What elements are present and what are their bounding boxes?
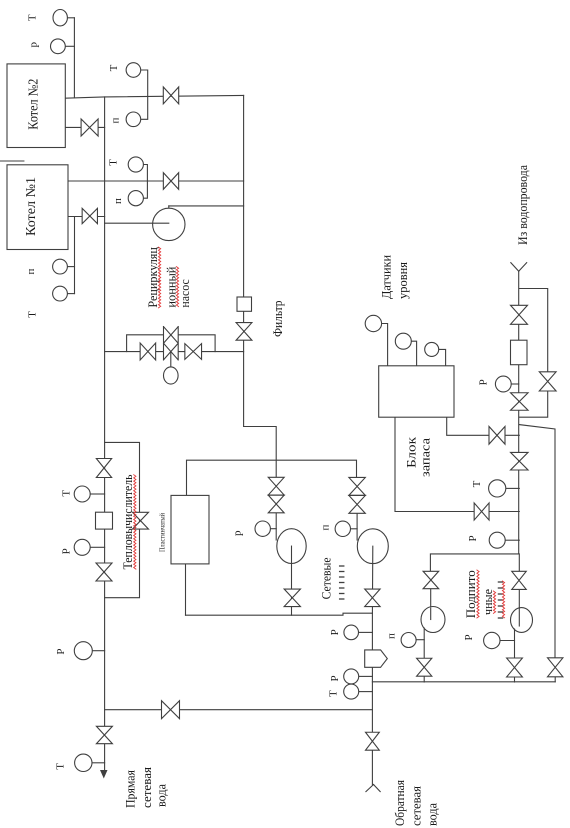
node supply inlet mark — [511, 263, 519, 272]
valve return bottom — [366, 732, 380, 750]
svg-text:Подпито: Подпито — [463, 570, 478, 618]
wire return T spur — [359, 691, 373, 693]
squiggle podpit nasosy — [502, 581, 504, 618]
wire supply trunk (filter line) — [243, 95, 245, 426]
filter F1 body — [237, 297, 252, 311]
svg-text:Р: Р — [329, 675, 341, 681]
wire boiler2 bottom outlet — [65, 126, 104, 128]
wire boiler1 top outlet — [68, 180, 244, 182]
svg-text:сетевая: сетевая — [139, 767, 154, 808]
gauge T heat-meter — [74, 486, 90, 502]
wire sensor spur b — [67, 293, 74, 295]
svg-text:Тепловычислитель: Тепловычислитель — [120, 474, 135, 569]
wire trunk P spur — [92, 650, 104, 652]
pump N2 (network 1) — [277, 529, 306, 564]
svg-text:уровня: уровня — [395, 262, 410, 299]
wire level sensor stem 1 — [382, 324, 388, 366]
svg-text:Из водопровода: Из водопровода — [516, 165, 530, 245]
boiler K1 box — [7, 165, 68, 250]
heat exchanger — [171, 495, 209, 564]
wire supply P2 spur — [505, 539, 519, 541]
valve bypass left — [140, 343, 156, 360]
wire return P2 spur — [359, 675, 373, 677]
gauge P supply — [495, 376, 511, 392]
svg-text:Т: Т — [61, 490, 73, 497]
svg-text:Сетевые: Сетевые — [319, 557, 334, 599]
wire pump N4 inlet tail — [430, 608, 432, 620]
wire tank right outlet — [447, 417, 520, 435]
svg-text:р: р — [231, 530, 243, 536]
gauge P make-up left — [401, 633, 416, 648]
wire pump2 gauge spur — [351, 528, 358, 530]
svg-text:запаса: запаса — [418, 438, 433, 477]
wire return P spur — [359, 631, 373, 633]
wire sensor drop line above boiler2 — [73, 18, 75, 98]
valve heat-meter bypass — [133, 512, 149, 529]
svg-text:Фильтр: Фильтр — [270, 301, 285, 338]
wire level sensor stem 2 — [411, 341, 416, 366]
wire HX outlet — [185, 564, 187, 615]
svg-text:чные: чные — [480, 589, 495, 615]
wire tank left outlet — [395, 417, 519, 511]
valve right riser — [548, 658, 563, 677]
valve stack1 lower — [268, 495, 284, 513]
wire stack2 to pump2 — [356, 513, 358, 540]
wire recirc bypass loop — [127, 335, 216, 352]
wire supply P spur — [511, 383, 519, 385]
valve heat-meter lower — [96, 563, 112, 581]
svg-text:Т: Т — [471, 480, 483, 487]
svg-text:Рециркуляц: Рециркуляц — [145, 247, 160, 308]
wire network pumps header — [186, 613, 373, 615]
wire stack1 to pump1 — [275, 513, 277, 540]
boiler K2 box — [7, 64, 65, 148]
node supply arrow (Pryamaya) — [100, 770, 108, 779]
wire pump1 gauge spur — [270, 528, 276, 530]
gauge T trunk — [75, 754, 92, 771]
squiggle recirc 1 — [159, 247, 161, 308]
pump N4 (make-up left) — [421, 607, 445, 633]
wire boiler2 top outlet (slanted) — [65, 95, 243, 98]
wire heat-meter T spur — [90, 493, 104, 495]
pump N1 (recirculation) — [153, 208, 185, 240]
gauge T supply — [489, 480, 506, 497]
wire makeup feed header — [430, 554, 518, 571]
mud trap (pentagon) — [365, 650, 388, 667]
flow meter body — [96, 512, 113, 529]
gauge P above K2 — [51, 39, 66, 54]
svg-text:насос: насос — [177, 279, 192, 308]
squiggle teplo — [134, 475, 136, 569]
gauge P return 2 — [344, 669, 359, 684]
svg-text:Р: Р — [467, 535, 479, 541]
wire branch to right riser — [519, 425, 555, 658]
wire city water main — [518, 271, 520, 554]
level sensor 2 — [395, 333, 411, 349]
wire makeup header — [372, 681, 555, 683]
valve boiler2 top line — [163, 87, 178, 104]
label setevye dashes — [340, 565, 344, 567]
wire pump top connector — [168, 206, 170, 208]
node return outlet mark — [366, 785, 374, 792]
wire makeup gauge spur — [500, 640, 515, 642]
pump N5 (make-up right) — [511, 608, 533, 633]
wire pump N4 gauge spur — [416, 639, 424, 641]
svg-text:Котел №1: Котел №1 — [23, 177, 38, 236]
valve city water 3 — [511, 452, 529, 470]
squiggle podpito — [477, 570, 479, 618]
gauge T pair1 — [126, 63, 141, 78]
svg-text:Р: Р — [478, 379, 490, 385]
svg-text:Т: Т — [26, 311, 38, 318]
svg-text:п: п — [320, 524, 332, 530]
wire sensor drop below boiler1 — [74, 217, 76, 294]
gauge P trunk — [74, 642, 92, 660]
wire control valve stem — [170, 352, 172, 368]
svg-text:сетевая: сетевая — [410, 786, 424, 826]
wire right riser tail — [554, 677, 556, 682]
valve bypass right — [185, 344, 202, 360]
wire pump N5 outlet — [514, 629, 516, 682]
wire recirc bypass main — [105, 351, 244, 353]
valve make-up right top — [512, 571, 527, 589]
wire city water bypass — [519, 289, 548, 418]
gauge T above K2 — [53, 10, 67, 26]
pump N3 (network 2) — [357, 529, 388, 564]
wire supply trunk turn — [244, 427, 277, 478]
valve stack2 lower — [349, 495, 365, 513]
wire recirc suction — [105, 222, 169, 224]
valve cross line — [162, 701, 180, 719]
wire trunk T spur — [92, 762, 105, 764]
svg-text:Прямая: Прямая — [123, 770, 138, 808]
wire heat-meter bypass loop — [105, 442, 140, 597]
svg-text:Т: Т — [108, 159, 120, 166]
gauge P pump N3 — [335, 521, 350, 536]
svg-text:Котел №2: Котел №2 — [26, 79, 41, 130]
wire cross line to trunk — [105, 709, 373, 711]
svg-text:Блок: Блок — [404, 436, 419, 468]
wire sensor spur a — [67, 266, 74, 268]
gauge P return 1 — [344, 625, 359, 640]
svg-text:р: р — [27, 42, 39, 48]
svg-text:Пластинчатый: Пластинчатый — [158, 513, 167, 552]
valve make-up left top — [423, 571, 439, 588]
svg-text:п: п — [112, 198, 124, 204]
svg-text:Р: Р — [55, 648, 67, 654]
level sensor 3 — [425, 342, 439, 356]
gauge T below K1 — [53, 286, 68, 301]
svg-text:Обратная: Обратная — [393, 780, 407, 826]
valve heat-meter upper — [96, 459, 111, 478]
valve make-up right bottom — [507, 658, 523, 677]
valve city bypass — [539, 372, 556, 391]
svg-text:Т: Т — [27, 14, 39, 21]
valve tank bottom line — [474, 503, 489, 520]
wire return trunk — [104, 97, 106, 770]
valve boiler1 outlet — [82, 208, 97, 223]
gauge T pair2 — [128, 157, 143, 172]
gauge P pair2 — [128, 191, 143, 206]
valve city water 2 — [511, 393, 529, 411]
wire pump N3 outlet — [371, 546, 373, 613]
actuator circle — [164, 367, 179, 384]
valve city water 1 — [511, 305, 528, 324]
gauge P supply 2 — [489, 532, 505, 548]
valve stack2 upper — [349, 477, 365, 495]
wire pump N5 inlet tail — [518, 590, 520, 627]
valve pump N3 outlet — [365, 589, 380, 607]
valve boiler1 top line — [163, 173, 178, 190]
svg-text:Р: Р — [61, 548, 73, 554]
svg-text:Р: Р — [463, 634, 475, 640]
svg-text:вода: вода — [426, 803, 440, 826]
gauge P heat-meter — [74, 539, 90, 555]
gauge P below K1 — [53, 259, 68, 274]
squiggle recirc 2 — [176, 267, 178, 307]
svg-text:п: п — [25, 268, 37, 274]
wire T/P bracket pair 2 — [143, 165, 147, 199]
wire P1 spur — [65, 45, 74, 47]
control valve (3-way) — [164, 327, 179, 360]
svg-text:Р: Р — [329, 629, 341, 635]
svg-text:Т: Т — [55, 763, 67, 770]
valve pump N2 outlet — [284, 589, 300, 607]
wire heat-meter P spur — [90, 546, 104, 548]
wire T1 spur — [67, 17, 74, 19]
svg-text:Т: Т — [108, 64, 120, 71]
wire T/P bracket pair 1 — [141, 70, 148, 119]
svg-text:Т: Т — [328, 690, 340, 697]
wire pump discharge top — [169, 205, 244, 207]
wire pump N4 outlet — [423, 628, 425, 682]
wire pump N2 outlet — [291, 546, 293, 615]
wire makeup right inlet — [518, 554, 520, 572]
svg-text:Датчики: Датчики — [379, 255, 394, 299]
svg-text:вода: вода — [154, 784, 169, 807]
valve filter line — [236, 323, 252, 341]
valve stack1 upper — [268, 477, 284, 495]
wire level sensor stem 3 — [439, 349, 446, 365]
gauge P make-up — [484, 632, 500, 648]
gauge P pair1 — [126, 112, 141, 127]
wire makeup left inlet — [430, 589, 432, 608]
wire boiler1 bottom outlet — [68, 216, 105, 218]
gauge P pump N2 — [255, 521, 270, 536]
tank B1 (reserve block) — [379, 366, 454, 417]
water meter body — [511, 340, 528, 365]
gauge T return — [344, 684, 359, 699]
valve make-up left bottom — [417, 658, 432, 676]
valve tank right line — [489, 426, 505, 444]
label podpit dashes — [498, 581, 502, 583]
valve boiler2 outlet — [81, 119, 98, 136]
squiggle chnye — [493, 591, 495, 613]
wire return riser — [371, 613, 373, 784]
valve trunk bottom — [96, 726, 112, 743]
svg-text:п: п — [110, 117, 122, 123]
wire HX feed header — [187, 460, 357, 495]
level sensor 1 — [365, 315, 381, 331]
svg-text:п: п — [386, 633, 398, 639]
wire supply T spur — [506, 487, 520, 489]
wire edge tick — [0, 160, 24, 162]
